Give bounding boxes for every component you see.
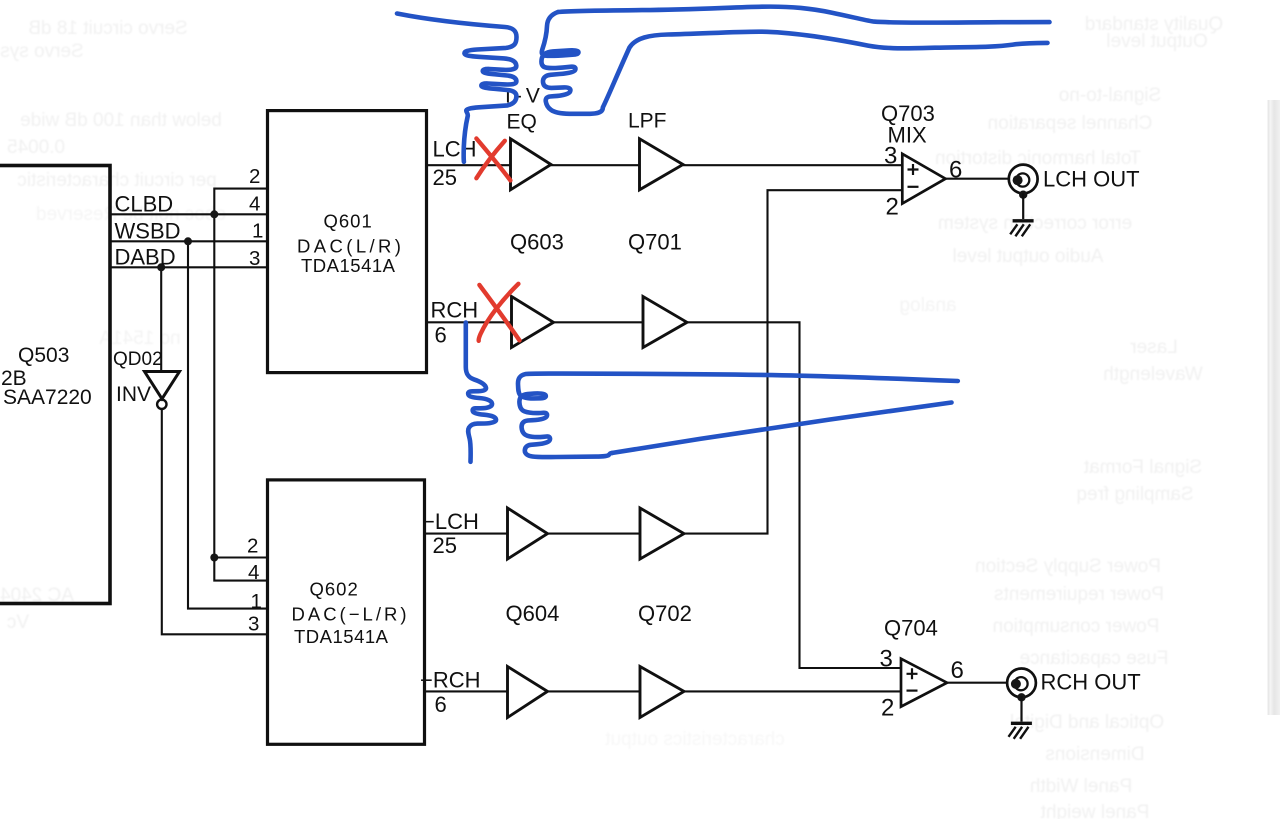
svg-text:Wavelength: Wavelength [1103,364,1203,385]
node junction Q602 pin2 [210,554,218,562]
svg-text:Panel weight: Panel weight [1040,802,1150,819]
svg-text:LPF: LPF [628,109,667,132]
amplifier Q702 R [640,667,684,718]
scan page edge strip right [1268,100,1280,715]
node jack RCH ground junction [1017,693,1025,701]
amplifier Q604 L [508,508,548,559]
inverter QD02 symbol [145,372,180,399]
svg-text:Q702: Q702 [638,601,692,626]
svg-text:3: 3 [880,646,893,673]
inverter QD02 bubble [157,400,166,409]
svg-text:6: 6 [949,157,962,184]
svg-text:0.0045: 0.0045 [7,137,65,158]
node junction WSBD [184,237,192,245]
svg-text:25: 25 [433,165,457,190]
svg-text:25: 25 [433,533,457,558]
svg-text:Q603: Q603 [510,230,564,255]
svg-text:SAA7220: SAA7220 [3,386,92,409]
svg-text:2: 2 [881,695,894,722]
red X mark over LCH amp input [476,139,510,181]
connector J LCH OUT jack [1009,165,1038,194]
node jack LCH ground junction [1019,191,1027,199]
wire RCH to Q704 pin 3 [687,322,901,668]
amplifier Q604 R [508,667,548,718]
amplifier Q603 R (EQ) [512,297,554,348]
op-amp Q704 plus sign [907,668,918,679]
svg-text:LCH: LCH [433,137,477,162]
svg-text:3: 3 [884,143,897,170]
svg-text:Servo sys: Servo sys [0,41,83,62]
blue scribble coil 3 from RCH wire down [466,323,496,462]
node junction CLBD [210,210,218,218]
svg-text:below than 100 dB wide: below than 100 dB wide [20,110,222,131]
svg-text:Signal-to-no: Signal-to-no [1059,85,1161,106]
svg-text:Q602: Q602 [310,579,359,600]
svg-text:2: 2 [247,535,258,558]
IC Q602 DAC block [268,480,425,744]
blue scribble coil 2 with long pen strokes to the right (upper pair) [541,12,602,114]
wire -RCH to Q704 pin 2 [684,690,901,692]
wire WSBD branch to pin 1 of Q602 [188,241,268,608]
svg-text:Q503: Q503 [18,344,69,367]
svg-text:DABD: DABD [115,245,176,270]
svg-text:Signal Format: Signal Format [1083,457,1202,478]
svg-text:WSBD: WSBD [115,219,181,244]
op-amp Q703 plus sign [908,164,919,175]
wire CLBD branch to pins 2/4 of both DACs [214,189,267,581]
op-amp Q703 minus sign [908,186,919,188]
svg-text:DAC(−L/R): DAC(−L/R) [292,603,410,624]
wire -RCH from Q602 [425,690,508,692]
svg-text:Sampling freq: Sampling freq [1076,484,1193,505]
svg-text:TDA1541A: TDA1541A [301,255,396,276]
svg-text:DAC(L/R): DAC(L/R) [297,236,404,257]
amplifier Q603 L (EQ) [511,139,552,190]
connector J RCH OUT jack [1007,669,1036,698]
svg-text:LCH OUT: LCH OUT [1043,167,1140,192]
svg-text:CLBD: CLBD [115,192,174,217]
svg-text:−LCH: −LCH [422,509,479,534]
svg-text:4: 4 [249,193,260,216]
ground symbol LCH [1013,219,1034,222]
svg-text:Servo circuit 18 dB: Servo circuit 18 dB [28,18,187,39]
blue long stroke line 2 from coil 2 bottom [603,32,1048,108]
svg-text:Audio output level: Audio output level [952,246,1103,267]
BLUE PEN LAYER [397,7,1050,462]
op-amp U Q704 MIX [901,659,947,707]
wire inverter output to Q602 pin 3 [162,409,268,634]
wire RCH jack ground stub [1020,696,1022,722]
svg-text:Q704: Q704 [884,616,938,641]
BLACK SCHEMATIC LAYER [0,111,1038,745]
wire Q704 output to RCH jack [947,682,1007,684]
svg-text:Output level: Output level [1106,31,1207,52]
svg-text:characteristics output: characteristics output [605,729,785,750]
svg-text:Panel Width: Panel Width [1030,776,1132,797]
wire RCH from Q601 to EQ amp [427,321,512,323]
wire WSBD [110,240,268,242]
svg-text:Q604: Q604 [506,601,560,626]
svg-text:3: 3 [248,613,259,636]
node junction DABD [157,263,165,271]
svg-text:Vc: Vc [7,612,29,633]
svg-text:analog: analog [899,295,956,316]
svg-text:Dimensions: Dimensions [1045,744,1144,765]
wire Q703 output to LCH jack [946,178,1009,180]
ground symbol RCH [1011,722,1032,725]
red X mark over RCH amp input [479,285,519,341]
svg-text:RCH OUT: RCH OUT [1041,670,1141,695]
blue scribble coil 1 top-left with lead to LCH amp input [397,14,517,162]
wire EQ R out to LPF R [554,321,644,323]
svg-text:INV: INV [116,383,151,406]
svg-text:Optical and Digital: Optical and Digital [1010,712,1164,733]
wire -LCH from Q602 [425,533,508,535]
blue scribble coil 4 with long strokes to the right (middle pair) [518,374,958,458]
blue long stroke upper line 1 [558,7,1050,23]
svg-text:Q601: Q601 [324,211,373,232]
wire Q604 R out to Q702 R [548,690,641,692]
svg-text:Channel separation: Channel separation [988,113,1153,134]
svg-text:Power consumption: Power consumption [993,616,1160,637]
svg-text:Power requirements: Power requirements [994,584,1164,605]
op-amp Q704 minus sign [907,689,918,691]
RED PEN LAYER [476,139,519,341]
wire DABD branch to inverter input [160,267,162,371]
svg-text:2: 2 [249,165,260,188]
svg-text:QD02: QD02 [113,349,163,370]
svg-text:6: 6 [951,657,964,684]
svg-text:EQ: EQ [507,110,537,133]
svg-text:error correction system: error correction system [938,213,1132,234]
svg-text:3: 3 [249,247,260,270]
svg-text:Fuse capacitance: Fuse capacitance [1020,648,1169,669]
svg-text:Q701: Q701 [628,230,682,255]
wire DABD [110,266,268,268]
amplifier Q701 L (LPF) [640,139,684,190]
svg-text:6: 6 [435,323,447,348]
svg-text:2: 2 [886,194,899,221]
wire CLBD [110,213,268,215]
svg-text:−RCH: −RCH [420,668,481,693]
amplifier Q702 L [640,508,684,559]
amplifier Q701 R (LPF) [643,297,687,348]
IC Q601 DAC block [268,111,427,373]
svg-text:1: 1 [251,590,262,613]
svg-text:4: 4 [248,561,259,584]
IC Q503 digital filter block [0,166,110,604]
svg-text:Power Supply Section: Power Supply Section [975,556,1161,577]
wire LCH jack ground stub [1022,193,1024,219]
op-amp U Q703 MIX [902,154,945,204]
svg-text:TDA1541A: TDA1541A [294,626,389,647]
wire EQ out to LPF [551,164,640,166]
svg-text:RCH: RCH [431,298,479,323]
svg-text:per circuit characteristic: per circuit characteristic [17,170,217,191]
svg-text:1: 1 [252,220,263,243]
wire LCH from Q601 to EQ amp [427,164,511,166]
wire LPF out to Q703 pin 3 [683,164,902,166]
wire -LCH to Q703 pin 2 [684,190,902,533]
svg-text:Laser: Laser [1130,337,1178,358]
blue long stroke line 3 rising right [613,403,952,453]
wire Q604 out to Q702 [548,533,641,535]
svg-text:6: 6 [435,692,447,717]
